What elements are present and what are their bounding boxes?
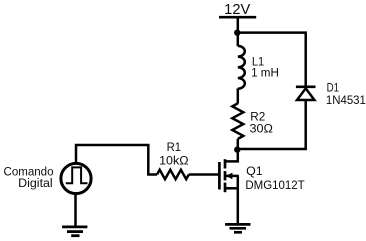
pulse source V1 Comando Digital bbox=[61, 163, 91, 193]
wire R1 to Q1 gate bbox=[189, 173, 218, 176]
wire node A to D1 cathode bbox=[238, 33, 306, 87]
diode D1 bbox=[296, 87, 316, 100]
svg-text:10kΩ: 10kΩ bbox=[159, 153, 189, 167]
wire rail to node A bbox=[237, 17, 240, 33]
svg-text:DMG1012T: DMG1012T bbox=[245, 178, 305, 192]
svg-text:12V: 12V bbox=[224, 2, 250, 18]
wire pulse source to R1 bbox=[76, 145, 157, 175]
wire D1 anode to node B bbox=[238, 100, 306, 149]
wire Q1 source to ground bbox=[237, 188, 240, 225]
node B junction bbox=[234, 146, 240, 152]
power rail 12V bbox=[219, 16, 256, 19]
ground at Q1 source bbox=[225, 224, 250, 232]
svg-text:30Ω: 30Ω bbox=[250, 122, 273, 136]
svg-text:1N4531: 1N4531 bbox=[326, 93, 366, 107]
resistor R2 bbox=[232, 103, 243, 138]
node A junction bbox=[234, 30, 240, 36]
svg-text:Digital: Digital bbox=[18, 176, 53, 190]
resistor R1 bbox=[157, 170, 189, 179]
transistor Q1 N-MOSFET bbox=[219, 159, 239, 192]
svg-text:Q1: Q1 bbox=[246, 164, 263, 178]
wire R2 to node B bbox=[237, 139, 240, 149]
inductor L1 bbox=[238, 46, 245, 89]
svg-text:1 mH: 1 mH bbox=[251, 65, 279, 79]
svg-text:R1: R1 bbox=[167, 140, 182, 154]
ground at pulse source bbox=[62, 227, 87, 236]
wire pulse source to ground bbox=[74, 193, 77, 228]
wire L1 to R2 bbox=[237, 88, 240, 103]
wire node B to Q1 drain bbox=[225, 149, 238, 161]
wire node A to L1 bbox=[237, 33, 240, 47]
